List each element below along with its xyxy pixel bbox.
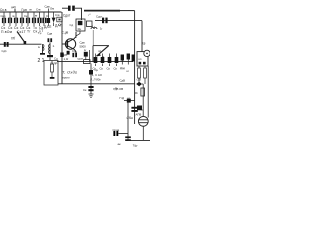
wire stub C17 [109, 54, 111, 67]
wire stub C18 [116, 54, 118, 67]
svg-text:Сдот: Сдот [63, 14, 71, 18]
svg-text:Lг: Lг [84, 48, 87, 52]
speaker Gr1 [138, 116, 148, 126]
svg-text:Сгв: Сгв [36, 8, 41, 12]
wire left rail [61, 12, 63, 84]
svg-text:гдоп: гдоп [78, 57, 84, 61]
switch P1 lever [11, 32, 26, 45]
output stage box U1 [137, 52, 148, 66]
wire top bus right thin [119, 10, 135, 12]
transformer L1 primary coil [43, 44, 45, 52]
svg-text:СдВ: СдВ [120, 79, 126, 83]
capacitor C18 [115, 57, 119, 63]
wire speaker rail right [147, 66, 149, 118]
capacitor C33 black [137, 106, 142, 111]
ground L2 [47, 55, 53, 57]
svg-text:κг: κг [127, 69, 129, 73]
coupling branch Cp [113, 101, 131, 146]
component blob on left rail [60, 53, 63, 58]
wire Cdob link [62, 7, 68, 9]
svg-text:Сκ: Сκ [83, 88, 87, 92]
trimmer C12 black pair [48, 38, 50, 42]
wire drop C7 [39, 12, 41, 26]
capacitor C31 bars [125, 136, 131, 138]
svg-text:Тдμ: Тдμ [133, 144, 138, 148]
svg-text:Сκ: Сκ [33, 30, 38, 34]
svg-text:Сг: Сг [59, 23, 62, 27]
wire stub C16 [102, 54, 104, 67]
tube envelope circle [144, 50, 150, 56]
stub Cdv top [48, 9, 50, 13]
capacitor Cp bars [113, 131, 115, 136]
resistor R11 [144, 66, 147, 84]
wire drop C9 [48, 12, 50, 26]
svg-text:Сκп: Сκп [1, 14, 6, 18]
wire branch down [127, 101, 129, 140]
svg-text:Т, Охдг: Т, Охдг [62, 70, 77, 75]
svg-text:вг: вг [30, 8, 33, 12]
capacitor Cm [89, 70, 93, 75]
bypass capacitors on mid bus [96, 54, 117, 67]
svg-text:1,0г: 1,0г [64, 57, 69, 61]
svg-text:Дрд: Дрд [120, 66, 125, 70]
resistor Rdop box on mid bus [84, 60, 90, 64]
wire drop D1 [53, 12, 55, 26]
wire input line [0, 43, 42, 45]
contacts inside box [139, 62, 142, 65]
decoupling branch x91 [83, 64, 99, 98]
wire Cp link [118, 133, 128, 135]
svg-text:↑2В: ↑2В [136, 78, 141, 82]
labels under bypass caps [92, 67, 118, 78]
ground branch [89, 94, 94, 97]
capacitor C9a [72, 53, 77, 57]
svg-text:вг: вг [35, 14, 38, 18]
svg-text:ГгД: ГгД [120, 96, 125, 100]
wire Cdob link right [75, 8, 82, 20]
svg-text:Lг: Lг [38, 45, 41, 49]
capacitor C16 [101, 57, 105, 63]
transformer L2 secondary coil [49, 43, 50, 56]
wire Ctr line [95, 20, 142, 22]
svg-text:П.вОм: П.вОм [1, 30, 13, 34]
labels below capacitor bank [1, 24, 63, 35]
svg-text:1г: 1г [100, 27, 103, 31]
svg-text:Сд: Сд [70, 23, 74, 27]
capacitor C21 on input line [2, 42, 9, 53]
svg-text:Сдот: Сдот [96, 15, 103, 19]
capacitor C6 [32, 18, 34, 23]
wire right rail inner [141, 21, 143, 52]
svg-text:Ом: Ом [50, 7, 54, 11]
wire bottom [128, 139, 150, 141]
svg-text:Сκ: Сκ [114, 67, 118, 71]
resistor R2 [51, 61, 54, 78]
resistor R10 [138, 66, 141, 84]
emitter resistor blob [67, 51, 70, 55]
resistor R1 box [57, 17, 62, 22]
node stub antenna [14, 9, 16, 13]
relay box K1 [76, 19, 85, 31]
svg-text:Сх.в: Сх.в [0, 8, 7, 12]
svg-text:Rг: Rг [135, 91, 138, 95]
capacitor bank drops from top bus [4, 12, 54, 26]
svg-text:Сμ: Сμ [95, 68, 99, 72]
capacitor C1 [2, 18, 4, 23]
wire top bus left [0, 11, 62, 13]
blob on G5D line [127, 99, 131, 103]
wire drop C4 [21, 12, 23, 26]
svg-text:Сдв: Сдв [47, 32, 53, 36]
svg-text:Сд: Сд [54, 57, 58, 61]
capacitor Cdob top [68, 6, 75, 11]
trimmer C12 labels [38, 31, 55, 48]
capacitor C2 [8, 18, 10, 23]
svg-text:Сгв: Сгв [55, 13, 60, 17]
capacitor C9 [47, 18, 50, 23]
svg-text:АПВ: АПВ [136, 113, 142, 117]
wire drop C8 [43, 12, 45, 26]
diode pair VD1 on lower bus [136, 82, 142, 87]
svg-text:Сκ: Сκ [107, 67, 111, 71]
svg-text:гº: гº [89, 13, 91, 17]
labels above top bus [0, 5, 60, 18]
switch P1 contact blob [24, 41, 27, 44]
svg-text:Пб: Пб [11, 37, 15, 41]
wire drop C3 [15, 12, 17, 26]
svg-text:Тг: Тг [27, 30, 31, 34]
ground L1 [42, 52, 44, 53]
wire drop C2 [9, 12, 11, 26]
svg-text:Сд1: Сд1 [2, 49, 8, 53]
svg-text:прот: прот [63, 76, 71, 80]
shield box around R2 [44, 61, 58, 86]
inductor Lg top [91, 28, 97, 46]
capacitor C7 [37, 18, 39, 23]
capacitor C15 [94, 57, 98, 63]
capacitor C3 [14, 18, 16, 23]
capacitor C5 [26, 18, 28, 23]
capacitor C4 [20, 18, 22, 23]
svg-text:κп: κп [139, 57, 142, 61]
wire drop C6 [33, 12, 35, 26]
transistor T1 [62, 32, 76, 56]
capacitor C30 on right rail [131, 107, 137, 112]
svg-text:Rμ: Rμ [78, 27, 82, 31]
svg-text:Сκ: Сκ [100, 67, 104, 71]
wire drop C1 [3, 12, 5, 26]
svg-text:Тд: Тд [142, 42, 146, 46]
svg-text:Сκ: Сκ [24, 14, 28, 18]
svg-text:Л,.Л 80г: Л,.Л 80г [89, 78, 101, 82]
capacitor Ctr on upper right wire [102, 18, 108, 24]
wire to speaker rail [142, 84, 143, 116]
svg-text:Сд: Сд [72, 49, 76, 53]
svg-text:А: А [115, 86, 117, 90]
wire branch [90, 64, 92, 95]
svg-text:Тμ: Тμ [38, 31, 42, 35]
resistor R3 blob [78, 21, 83, 25]
svg-text:2 1: 2 1 [38, 58, 45, 64]
wire drop C5 [27, 12, 29, 26]
wire G5D line [124, 100, 135, 102]
choke Dr diodes [121, 54, 135, 62]
svg-text:L, С АО: L, С АО [92, 73, 103, 77]
wire stub C15 [95, 54, 97, 67]
wire under speaker [142, 126, 144, 140]
variable capacitor frame [93, 46, 109, 62]
resistor R4 box [87, 21, 93, 27]
svg-text:Гμв: Гμв [22, 8, 28, 12]
wire lower bus [58, 83, 135, 85]
svg-text:1.: 1. [53, 44, 56, 48]
svg-text:Сг: Сг [46, 14, 49, 18]
wire top bus right thick [84, 10, 120, 12]
wire mid bus [57, 61, 133, 63]
capacitor Ck bars [88, 86, 93, 88]
svg-text:Сдв: Сдв [45, 5, 51, 9]
ground bar inside box [50, 77, 55, 79]
wire collector link [76, 31, 80, 38]
resistor R12 box [141, 88, 145, 96]
wire right rail outer [134, 11, 136, 124]
svg-text:Сбω: Сбω [127, 116, 134, 120]
capacitor C8 [42, 18, 44, 23]
labels between bus and caps [1, 14, 50, 19]
svg-text:Lг: Lг [93, 25, 96, 29]
inductor L5 blob [84, 52, 88, 57]
svg-text:С,μв: С,μв [62, 31, 69, 35]
capacitor C17 [108, 57, 112, 63]
svg-text:даб: даб [11, 5, 16, 9]
svg-text:ДАП: ДАП [44, 25, 52, 29]
diode D1 [52, 18, 56, 23]
